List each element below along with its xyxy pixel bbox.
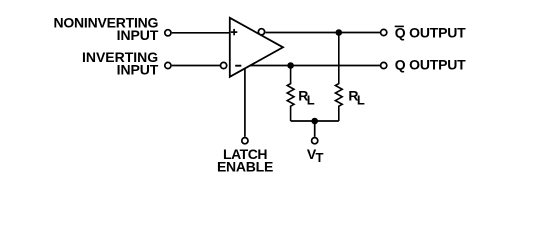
label RL1 — [298, 87, 315, 107]
inversion bubble at inverting pin — [221, 62, 227, 68]
label Qbar OUTPUT — [395, 25, 466, 41]
pin - inverting — [235, 65, 241, 67]
resistor RL2 — [335, 33, 342, 122]
svg-text:INPUT: INPUT — [117, 62, 159, 78]
node Q OUTPUT terminal — [381, 62, 387, 68]
label VT — [307, 146, 324, 165]
node VT terminal — [312, 138, 318, 144]
wire inverting input to inversion bubble — [172, 65, 220, 67]
label RL2 — [348, 87, 365, 107]
svg-text:L: L — [357, 93, 365, 108]
wire Qbar output line — [265, 32, 380, 34]
label LATCH ENABLE — [217, 146, 273, 175]
node NONINVERTING INPUT terminal — [165, 30, 171, 36]
resistor RL1 — [287, 66, 294, 122]
label INVERTING INPUT — [82, 49, 159, 78]
label NONINVERTING INPUT — [53, 15, 158, 43]
wire VT rail — [291, 120, 339, 122]
wire VT stub — [314, 121, 316, 137]
inversion bubble Qbar output — [258, 29, 264, 35]
svg-text:Q OUTPUT: Q OUTPUT — [395, 56, 466, 72]
svg-text:Q OUTPUT: Q OUTPUT — [395, 25, 466, 41]
junction Q to RL1 — [287, 62, 294, 69]
wire noninverting input to comparator plus pin — [172, 32, 231, 34]
wire latch enable — [244, 68, 246, 137]
svg-text:INPUT: INPUT — [117, 27, 159, 43]
node INVERTING INPUT terminal — [165, 62, 171, 68]
wire Q output line — [250, 65, 381, 67]
node LATCH ENABLE terminal — [242, 138, 248, 144]
node Qbar OUTPUT terminal — [381, 29, 387, 35]
svg-text:L: L — [307, 93, 315, 108]
pin + noninverting — [231, 29, 237, 35]
junction Qbar to RL2 — [336, 29, 343, 36]
op-amp U1 comparator triangle — [230, 18, 283, 77]
junction VT — [311, 118, 318, 125]
svg-text:ENABLE: ENABLE — [217, 159, 273, 175]
svg-text:T: T — [316, 150, 324, 165]
